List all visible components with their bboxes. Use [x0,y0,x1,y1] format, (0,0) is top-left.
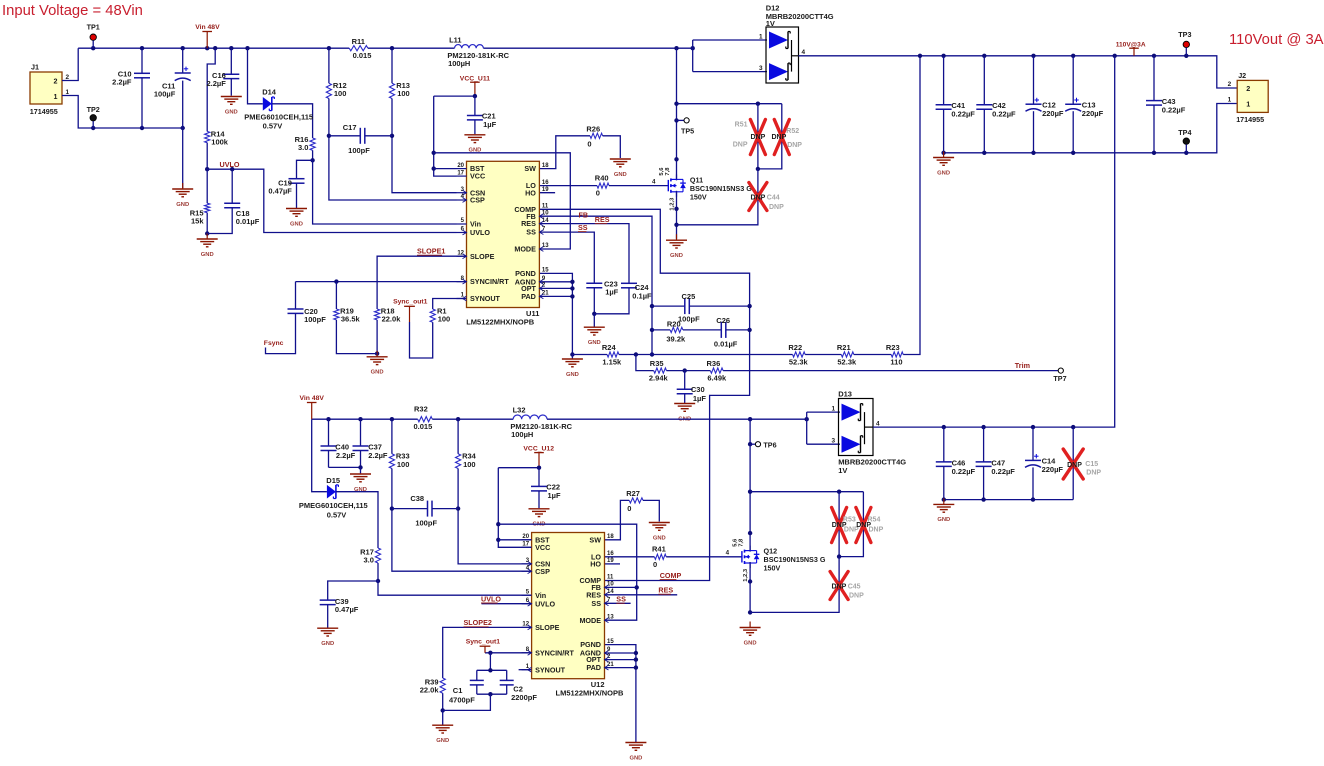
svg-text:13: 13 [542,243,549,249]
svg-text:SYNOUT: SYNOUT [535,665,566,674]
svg-text:17: 17 [457,170,464,176]
svg-text:R20: R20 [667,319,681,328]
svg-text:GND: GND [566,372,579,378]
svg-text:1.15k: 1.15k [602,357,622,366]
svg-text:Sync_out1: Sync_out1 [393,298,428,305]
svg-text:GND: GND [176,202,189,208]
svg-text:DNP: DNP [751,134,766,141]
svg-text:100: 100 [463,460,476,469]
svg-text:4: 4 [726,550,730,557]
svg-text:VCC_U11: VCC_U11 [460,75,490,82]
svg-text:GND: GND [290,221,303,227]
svg-text:Trim: Trim [1015,361,1030,370]
svg-text:0.015: 0.015 [353,51,372,60]
svg-text:0: 0 [587,140,591,149]
svg-text:0: 0 [627,504,631,513]
svg-text:R11: R11 [352,37,365,46]
svg-text:4: 4 [652,178,656,185]
svg-text:GND: GND [937,170,950,176]
svg-text:150V: 150V [764,564,781,573]
svg-text:PAD: PAD [521,292,536,301]
svg-text:100pF: 100pF [304,315,326,324]
svg-text:DNP: DNP [832,583,847,590]
svg-text:1: 1 [66,89,70,96]
svg-text:13: 13 [607,614,614,620]
svg-text:16: 16 [542,180,549,186]
svg-text:52.3k: 52.3k [789,357,809,366]
svg-text:2200pF: 2200pF [511,693,537,702]
svg-text:1V: 1V [838,466,847,475]
svg-text:SLOPE2: SLOPE2 [464,618,492,627]
svg-text:DNP: DNP [772,134,787,141]
svg-text:0: 0 [653,560,657,569]
svg-text:D14: D14 [262,88,277,97]
svg-text:17: 17 [522,542,529,548]
svg-text:1µF: 1µF [548,491,561,500]
svg-text:1: 1 [54,92,58,101]
svg-text:18: 18 [607,534,614,540]
svg-text:L32: L32 [513,405,526,414]
svg-text:4700pF: 4700pF [449,696,475,705]
svg-text:0.01µF: 0.01µF [714,339,738,348]
svg-text:DNP: DNP [787,142,802,149]
svg-text:UVLO: UVLO [481,594,501,603]
svg-text:1µF: 1µF [605,288,618,297]
svg-text:DNP: DNP [849,592,864,599]
svg-text:GND: GND [937,517,950,523]
svg-text:SS: SS [616,595,626,604]
svg-text:20: 20 [522,534,529,540]
svg-text:220µF: 220µF [1082,109,1104,118]
svg-text:C26: C26 [716,316,730,325]
svg-text:C25: C25 [682,292,696,301]
svg-text:C38: C38 [410,494,424,503]
svg-text:22.0k: 22.0k [420,686,440,695]
svg-text:110: 110 [890,357,902,366]
svg-text:DNP: DNP [751,195,766,202]
svg-text:RES: RES [658,586,673,595]
svg-text:PAD: PAD [586,663,601,672]
svg-text:R51: R51 [735,122,748,129]
svg-text:0.22µF: 0.22µF [1162,105,1186,114]
svg-text:220µF: 220µF [1042,465,1064,474]
svg-text:L11: L11 [449,36,462,45]
svg-text:UVLO: UVLO [470,228,490,237]
svg-text:SW: SW [589,535,601,544]
svg-text:GND: GND [670,253,683,259]
svg-text:TP5: TP5 [681,126,694,135]
svg-text:2.2µF: 2.2µF [112,78,132,87]
svg-text:MODE: MODE [579,616,601,625]
svg-text:R21: R21 [837,343,851,352]
svg-text:2: 2 [1246,84,1250,93]
svg-text:COMP: COMP [660,571,682,580]
svg-text:Input Voltage = 48Vin: Input Voltage = 48Vin [2,3,143,19]
svg-text:11: 11 [607,575,614,581]
svg-text:SW: SW [524,164,536,173]
svg-text:LM5122MHX/NOPB: LM5122MHX/NOPB [556,689,625,698]
svg-text:D15: D15 [326,476,340,485]
svg-text:Fsync: Fsync [264,340,284,347]
svg-text:PMEG6010CEH,115: PMEG6010CEH,115 [299,501,368,510]
svg-text:C45: C45 [848,583,861,590]
svg-text:MODE: MODE [514,245,536,254]
svg-text:14: 14 [542,218,549,224]
svg-text:Vin 48V: Vin 48V [300,395,325,402]
svg-text:VCC: VCC [535,543,550,552]
svg-text:7,8: 7,8 [665,167,671,176]
svg-text:VCC_U12: VCC_U12 [523,446,554,453]
svg-text:0.47µF: 0.47µF [335,605,359,614]
svg-text:R26: R26 [586,125,600,134]
svg-text:14: 14 [607,589,614,595]
svg-text:1V: 1V [766,19,775,28]
svg-text:15k: 15k [191,217,204,226]
svg-text:2: 2 [1228,81,1232,88]
svg-text:1: 1 [1228,97,1232,104]
svg-text:52.3k: 52.3k [837,357,857,366]
svg-text:GND: GND [588,340,601,346]
svg-text:1µF: 1µF [693,394,706,403]
svg-text:GND: GND [629,755,642,761]
svg-text:R40: R40 [595,173,609,182]
svg-text:J1: J1 [31,63,39,72]
svg-text:110V@3A: 110V@3A [1116,41,1146,48]
svg-text:0.01µF: 0.01µF [236,217,260,226]
svg-text:15: 15 [607,639,614,645]
svg-text:1: 1 [1246,99,1250,108]
svg-text:2.2µF: 2.2µF [368,451,388,460]
svg-text:21: 21 [542,291,549,297]
svg-text:16: 16 [607,551,614,557]
svg-text:1714955: 1714955 [30,107,58,116]
svg-text:20: 20 [457,163,464,169]
svg-text:6.49k: 6.49k [707,373,727,382]
svg-text:DNP: DNP [1067,462,1082,469]
svg-text:19: 19 [542,187,549,193]
svg-text:PMEG6010CEH,115: PMEG6010CEH,115 [244,112,313,121]
svg-text:100: 100 [334,89,347,98]
svg-text:100pF: 100pF [678,314,700,323]
svg-text:1: 1 [831,406,835,413]
svg-text:C17: C17 [343,123,357,132]
svg-text:GND: GND [371,370,384,376]
svg-text:1,2,3: 1,2,3 [743,568,749,582]
svg-text:GND: GND [653,535,666,541]
svg-text:GND: GND [614,172,627,178]
svg-text:3: 3 [759,65,763,72]
svg-text:GND: GND [744,640,757,646]
svg-text:19: 19 [607,558,614,564]
svg-text:0.22µF: 0.22µF [991,467,1015,476]
svg-text:2.2µF: 2.2µF [206,79,226,88]
svg-text:100pF: 100pF [348,146,370,155]
svg-text:1µF: 1µF [483,120,496,129]
svg-text:100µH: 100µH [448,59,470,68]
svg-text:SYNOUT: SYNOUT [470,294,501,303]
svg-text:4: 4 [802,49,806,56]
svg-text:DNP: DNP [733,142,748,149]
svg-text:R36: R36 [707,359,721,368]
svg-text:SLOPE1: SLOPE1 [417,247,445,256]
svg-text:2: 2 [66,74,70,81]
svg-text:0.22µF: 0.22µF [951,110,975,119]
svg-text:GND: GND [225,109,238,115]
svg-text:11: 11 [542,204,549,210]
svg-text:R35: R35 [650,359,664,368]
svg-text:3.0: 3.0 [363,556,373,565]
svg-text:100pF: 100pF [415,518,437,527]
svg-text:R41: R41 [652,545,666,554]
svg-text:39.2k: 39.2k [666,334,686,343]
svg-text:0.57V: 0.57V [263,122,283,131]
svg-text:1: 1 [759,33,763,40]
svg-text:DNP: DNP [1086,470,1101,477]
svg-text:15: 15 [542,268,549,274]
svg-text:J2: J2 [1238,71,1246,80]
svg-text:100: 100 [397,460,410,469]
svg-text:DNP: DNP [869,527,884,534]
svg-text:22.0k: 22.0k [382,314,402,323]
svg-text:100µH: 100µH [511,430,533,439]
svg-text:HO: HO [525,188,536,197]
svg-text:CSP: CSP [470,196,485,205]
svg-text:GND: GND [436,738,449,744]
svg-text:0: 0 [596,189,600,198]
svg-text:4: 4 [876,420,880,427]
svg-text:36.5k: 36.5k [341,314,361,323]
svg-text:1714955: 1714955 [1236,115,1264,124]
svg-text:100k: 100k [211,137,229,146]
svg-text:D13: D13 [838,390,852,399]
svg-text:FB: FB [579,210,589,219]
svg-text:10: 10 [542,210,549,216]
svg-text:HO: HO [590,560,601,569]
svg-text:100µF: 100µF [154,90,176,99]
svg-text:MBRB20200CTT4G: MBRB20200CTT4G [838,457,906,466]
svg-text:TP1: TP1 [87,23,100,32]
svg-text:0.47µF: 0.47µF [268,187,292,196]
svg-text:TP2: TP2 [87,105,100,114]
svg-text:100: 100 [438,314,451,323]
svg-text:SS: SS [526,228,536,237]
svg-text:SS: SS [578,223,588,232]
svg-text:Sync_out1: Sync_out1 [466,639,501,646]
svg-text:12: 12 [457,250,464,256]
svg-text:SYNCIN/RT: SYNCIN/RT [470,277,509,286]
svg-text:TP3: TP3 [1178,30,1191,39]
svg-text:SYNCIN/RT: SYNCIN/RT [535,648,574,657]
svg-text:0.57V: 0.57V [327,510,347,519]
svg-text:Vin 48V: Vin 48V [195,24,220,31]
svg-text:110Vout @ 3A: 110Vout @ 3A [1229,32,1324,48]
svg-text:TP4: TP4 [1178,128,1191,137]
svg-text:TP6: TP6 [763,440,776,449]
svg-text:UVLO: UVLO [535,599,555,608]
svg-text:SS: SS [591,599,601,608]
svg-text:R23: R23 [886,343,900,352]
svg-text:R27: R27 [626,489,640,498]
svg-text:C30: C30 [691,385,705,394]
svg-text:3.0: 3.0 [298,143,308,152]
svg-text:RES: RES [595,215,610,224]
svg-text:C44: C44 [767,195,780,202]
svg-text:7,8: 7,8 [739,538,745,547]
svg-text:10: 10 [607,582,614,588]
svg-text:R32: R32 [414,404,428,413]
svg-text:0.1µF: 0.1µF [632,291,652,300]
svg-text:SLOPE: SLOPE [535,623,560,632]
svg-text:100: 100 [397,89,410,98]
svg-text:GND: GND [201,252,214,258]
svg-text:0.015: 0.015 [414,422,433,431]
svg-text:R22: R22 [788,343,802,352]
svg-text:R24: R24 [602,343,617,352]
svg-text:LM5122MHX/NOPB: LM5122MHX/NOPB [466,318,535,327]
svg-text:GND: GND [321,641,334,647]
svg-text:12: 12 [522,622,529,628]
svg-text:DNP: DNP [769,204,784,211]
svg-text:C1: C1 [453,686,463,695]
svg-text:2: 2 [54,76,58,85]
svg-text:150V: 150V [690,192,707,201]
svg-text:18: 18 [542,163,549,169]
svg-text:3: 3 [831,438,835,445]
svg-text:GND: GND [354,487,367,493]
svg-text:21: 21 [607,662,614,668]
svg-text:TP7: TP7 [1053,374,1066,383]
svg-text:R52: R52 [786,128,799,135]
svg-text:CSP: CSP [535,567,550,576]
svg-text:VCC: VCC [470,172,485,181]
svg-text:0.22µF: 0.22µF [992,110,1016,119]
svg-text:2.94k: 2.94k [649,373,669,382]
svg-text:SLOPE: SLOPE [470,252,495,261]
svg-text:0.22µF: 0.22µF [952,467,976,476]
svg-text:220µF: 220µF [1042,109,1064,118]
svg-text:MBRB20200CTT4G: MBRB20200CTT4G [766,12,834,21]
svg-text:C15: C15 [1085,461,1098,468]
svg-text:UVLO: UVLO [220,160,240,169]
svg-text:2.2µF: 2.2µF [336,451,356,460]
